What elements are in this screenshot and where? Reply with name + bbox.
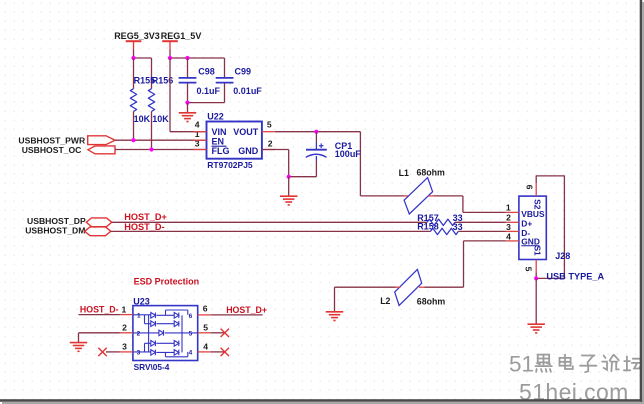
U23 diode D4 — [174, 321, 179, 327]
svg-text:6: 6 — [189, 313, 193, 320]
svg-text:2: 2 — [122, 323, 127, 333]
junction CP1 top — [314, 130, 318, 134]
ground U23 pin2 — [70, 343, 88, 352]
wire R155 bottom — [133, 111, 135, 140]
svg-text:HOST_D+: HOST_D+ — [226, 305, 267, 315]
wire GND down — [288, 150, 290, 177]
J28 pin 4 stub — [506, 240, 519, 242]
svg-text:100uF: 100uF — [335, 149, 362, 159]
svg-text:3: 3 — [122, 342, 127, 352]
wire VOUT to L1 — [360, 195, 403, 197]
L1 left stub — [404, 195, 409, 197]
wire C99 top — [224, 58, 226, 77]
svg-text:RT9702PJ5: RT9702PJ5 — [207, 160, 253, 170]
U23 pin 4 stub — [198, 351, 211, 353]
wire down to L2 row — [463, 241, 465, 287]
svg-text:J28: J28 — [555, 251, 570, 261]
junction shield/ground — [534, 276, 538, 280]
inductor L1 bead — [404, 178, 433, 214]
wire HOST_D+ long — [112, 221, 427, 223]
svg-text:USBHOST_PWR: USBHOST_PWR — [18, 135, 86, 145]
svg-text:EN: EN — [212, 137, 225, 147]
wire USBHOST_OC to FLG — [115, 149, 207, 151]
svg-text:10K: 10K — [152, 114, 169, 124]
junction R156 / OC — [149, 147, 153, 151]
ground U22/CP1 — [280, 196, 298, 205]
wire L1 to corner — [434, 195, 463, 197]
svg-text:REG5_3V3: REG5_3V3 — [114, 31, 160, 41]
ground L2 — [326, 312, 344, 321]
power bar REG5_3V3 — [126, 41, 142, 50]
svg-text:5: 5 — [267, 120, 272, 130]
watermark char hei — [536, 355, 552, 372]
svg-text:3: 3 — [137, 349, 141, 356]
ground J28 — [527, 324, 545, 333]
wire to ground U22 — [288, 177, 290, 196]
U23 diode D2 — [151, 321, 156, 327]
no-connect X pin5 — [221, 329, 229, 337]
svg-text:4: 4 — [203, 342, 208, 352]
wire into VIN pin 4 — [170, 131, 207, 133]
svg-text:6: 6 — [525, 185, 535, 190]
svg-text:VIN: VIN — [212, 127, 227, 137]
U22 pin 5 stub — [262, 131, 275, 133]
U23 pin 3 stub — [120, 351, 133, 353]
wire VOUT down — [359, 132, 361, 196]
wire L2 to ground corner — [335, 286, 396, 288]
port symbol USBHOST_DM — [85, 227, 111, 236]
wire shield loop — [536, 176, 564, 279]
wire to ground C98 — [187, 103, 189, 113]
wire to L2 — [425, 286, 464, 288]
capacitor CP1 100uF — [306, 142, 327, 161]
resistor R156 — [148, 89, 154, 112]
svg-text:1: 1 — [195, 129, 200, 139]
wire USBHOST_PWR to EN — [115, 139, 207, 141]
wire VOUT — [275, 131, 361, 133]
svg-text:U23: U23 — [133, 296, 150, 306]
L2 left stub — [396, 286, 401, 288]
svg-text:5: 5 — [524, 267, 534, 272]
U23 pin 5 stub — [198, 332, 211, 334]
connector J28 body — [519, 196, 546, 259]
watermark char zi — [580, 356, 596, 373]
U23 diode D5 — [151, 341, 156, 347]
L2 right stub — [419, 286, 425, 288]
svg-text:C98: C98 — [198, 67, 215, 77]
wire REG1_5V to VIN — [169, 58, 171, 132]
no-connect X pin4 — [221, 348, 229, 356]
svg-text:0.01uF: 0.01uF — [233, 86, 262, 96]
wire R156 top — [151, 58, 153, 89]
wire REG5_3V3 stem — [133, 50, 135, 59]
svg-text:1: 1 — [506, 203, 511, 213]
U23 pin 1 stub — [120, 314, 133, 316]
svg-text:3: 3 — [506, 222, 511, 232]
J28 pin 1 stub — [506, 211, 519, 213]
wire CP1 bottom left — [289, 176, 317, 178]
J28 pin 3 stub — [506, 230, 519, 232]
capacitor C98 — [179, 78, 197, 83]
svg-text:VOUT: VOUT — [233, 127, 259, 137]
svg-text:L1: L1 — [399, 168, 409, 178]
J28 pin 5 stub — [535, 260, 537, 273]
wire HOST_D- to U23 pin1 — [79, 314, 120, 316]
resistor R158 — [431, 228, 459, 234]
no-connect X pin3 — [98, 348, 106, 356]
J28 pin 6 stub — [535, 183, 537, 196]
svg-text:68ohm: 68ohm — [417, 168, 446, 178]
wire R157 to J28 pin2 — [455, 221, 506, 223]
wire REG1_5V stem — [169, 50, 171, 59]
wire to ground J28 — [535, 278, 537, 323]
wire to J28 pin1 — [463, 211, 506, 213]
wire GND pin right — [262, 149, 289, 151]
diode array U23 body — [133, 306, 198, 361]
J28 pin 2 stub — [506, 221, 519, 223]
port symbol USBHOST_DP — [86, 218, 112, 227]
svg-text:68ohm: 68ohm — [417, 297, 446, 307]
junction REG5_3V3 — [131, 56, 135, 60]
U23 internal diode network — [133, 310, 198, 357]
wire J28 pin4 left — [464, 240, 506, 242]
wire pin5 to junction — [535, 273, 537, 279]
U22 pin 2 stub — [262, 149, 275, 151]
svg-text:5: 5 — [203, 323, 208, 333]
svg-text:HOST_D-: HOST_D- — [124, 222, 164, 232]
svg-text:GND: GND — [238, 146, 259, 156]
ground C98 C99 — [179, 113, 197, 122]
svg-text:FLG: FLG — [212, 146, 230, 156]
junction R155 / PWR — [131, 138, 135, 142]
wire U23 pin5 — [211, 332, 225, 334]
svg-text:1: 1 — [122, 304, 127, 314]
svg-text:REG1_5V: REG1_5V — [161, 31, 202, 41]
wire C98 bottom — [187, 83, 189, 102]
svg-text:4: 4 — [189, 349, 193, 356]
U23 diode D3 — [174, 313, 179, 319]
watermark char tan — [624, 357, 642, 371]
resistor R157 — [427, 219, 455, 225]
svg-text:HOST_D-: HOST_D- — [80, 304, 119, 314]
frame border — [640, 0, 643, 402]
svg-text:10K: 10K — [134, 114, 151, 124]
port symbol USBHOST_OC — [88, 146, 115, 154]
wire HOST_D+ from U23 pin6 — [211, 314, 263, 316]
wire REG1_5V top rail to C99 — [170, 57, 225, 59]
wire U23 pin4 — [211, 351, 225, 353]
wire node REG5_3V3 to R156 top — [134, 57, 152, 59]
svg-text:C99: C99 — [235, 67, 252, 77]
U23 diode D8 — [174, 350, 179, 356]
svg-text:USBHOST_DP: USBHOST_DP — [27, 216, 86, 226]
capacitor C99 — [216, 78, 234, 83]
power bar REG1_5V — [162, 41, 178, 50]
wire CP1 top — [315, 132, 317, 142]
svg-text:51: 51 — [509, 352, 534, 377]
wire R155 top — [133, 58, 135, 89]
op-amp U22 body — [207, 122, 262, 159]
wire U23 pin3 — [106, 351, 120, 353]
U22 pin 4 stub — [194, 131, 207, 133]
U23 diode D6 — [151, 350, 156, 356]
svg-text:S1: S1 — [532, 245, 542, 256]
U22 pin 1 stub — [194, 139, 207, 141]
svg-text:L2: L2 — [380, 296, 390, 306]
svg-text:USBHOST_DM: USBHOST_DM — [25, 226, 85, 236]
svg-text:ESD Protection: ESD Protection — [134, 276, 200, 286]
svg-text:HOST_D+: HOST_D+ — [124, 212, 167, 222]
wire bottom rail C98 C99 — [188, 102, 225, 104]
port symbol USBHOST_PWR — [88, 136, 115, 145]
wire R156 bottom — [151, 111, 153, 149]
resistor R155 — [130, 89, 136, 112]
watermark char dian — [560, 355, 573, 369]
svg-text:2: 2 — [506, 212, 511, 222]
svg-text:U22: U22 — [207, 112, 224, 122]
wire R158 to J28 pin3 — [458, 230, 506, 232]
U23 diode D7 — [174, 341, 179, 347]
wire ground to U23 pin2 — [79, 332, 120, 334]
wire C99 bottom — [224, 83, 226, 102]
watermark char lun — [602, 355, 619, 371]
junction C98 bottom — [185, 101, 189, 105]
U23 zener diode — [159, 330, 164, 336]
U22 pin 3 stub — [194, 149, 207, 151]
wire down to ground — [334, 287, 336, 311]
svg-text:5: 5 — [189, 330, 193, 337]
wire down to ground U23 — [78, 333, 80, 342]
wire HOST_D- long — [111, 230, 431, 232]
U23 diode D1 — [151, 313, 156, 319]
svg-text:USB TYPE_A: USB TYPE_A — [546, 272, 604, 282]
svg-text:4: 4 — [506, 231, 511, 241]
inductor L2 bead — [395, 269, 422, 305]
L1 right stub — [429, 195, 435, 197]
svg-text:1: 1 — [137, 312, 141, 319]
wire down to VBUS row — [462, 196, 464, 213]
svg-text:0.1uF: 0.1uF — [197, 86, 221, 96]
junction C98 top — [185, 56, 189, 60]
junction GND node — [287, 175, 291, 179]
svg-text:USBHOST_OC: USBHOST_OC — [22, 145, 82, 155]
svg-text:6: 6 — [203, 304, 208, 314]
svg-text:4: 4 — [195, 120, 200, 130]
wire C98 top — [187, 58, 189, 77]
U23 pin 2 stub — [120, 332, 133, 334]
svg-text:SRV\05-4: SRV\05-4 — [134, 362, 170, 372]
svg-text:2: 2 — [137, 330, 141, 337]
svg-text:2: 2 — [268, 139, 273, 149]
wire CP1 bottom down — [315, 161, 317, 177]
U23 pin 6 stub — [198, 314, 211, 316]
junction REG1_5V — [168, 56, 172, 60]
